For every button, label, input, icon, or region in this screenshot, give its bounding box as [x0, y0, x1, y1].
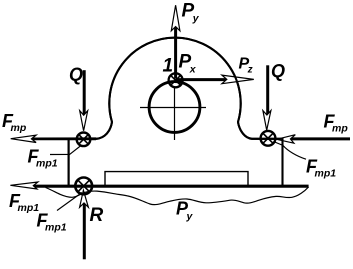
- force Q right shaft: [266, 65, 269, 115]
- workpiece outline re-stroke over arrowheads: [69, 38, 283, 186]
- base support line: [34, 185, 309, 188]
- svg-text:Fтр: Fтр: [324, 112, 349, 135]
- leader line to F_tr1 right label: [274, 142, 307, 160]
- svg-text:Fтр: Fтр: [2, 111, 27, 134]
- svg-text:Px: Px: [179, 52, 197, 76]
- svg-text:R: R: [90, 205, 104, 226]
- arrowhead R: [80, 190, 89, 207]
- arrowhead P_z: [222, 75, 254, 84]
- force P_y shaft: [174, 27, 177, 79]
- force F_tr right shaft: [291, 137, 350, 140]
- wire wavy ground break line: [46, 187, 309, 205]
- node 1 marker (force application point, into-page cross): [169, 73, 183, 87]
- svg-text:Q: Q: [271, 61, 285, 81]
- force P_z shaft: [176, 78, 228, 81]
- arrowhead Q left: [80, 111, 88, 131]
- node right flange clamp point: [261, 131, 276, 146]
- leader line to F_tr1 upper-left label: [50, 146, 81, 155]
- arrowhead F_tr right: [277, 135, 296, 144]
- svg-text:Fтр1: Fтр1: [37, 211, 67, 234]
- svg-text:1: 1: [163, 56, 174, 77]
- arrowhead Q right: [263, 111, 271, 131]
- svg-text:Q: Q: [69, 65, 83, 85]
- svg-text:Fтр1: Fтр1: [306, 157, 336, 180]
- svg-text:Py: Py: [176, 199, 194, 223]
- svg-text:Fтр1: Fтр1: [9, 191, 39, 214]
- node bottom support point: [75, 178, 92, 195]
- bore circle: [149, 82, 200, 133]
- workpiece outline (bearing cap): [69, 38, 283, 186]
- base slot rectangle: [105, 172, 248, 186]
- arrowhead P_y: [171, 5, 180, 31]
- reaction R shaft: [83, 204, 86, 260]
- bore centerline vertical: [174, 86, 176, 140]
- force Q left shaft: [83, 70, 86, 115]
- arrowhead F_tr1 bottom: [10, 182, 38, 189]
- svg-text:Pz: Pz: [239, 56, 253, 76]
- bore centerline horizontal: [140, 107, 206, 109]
- svg-text:Py: Py: [182, 1, 200, 25]
- node left flange clamp point: [77, 133, 91, 147]
- leader line to F_tr1 lower-left label: [57, 193, 82, 211]
- svg-text:Fтр1: Fтр1: [28, 147, 58, 170]
- left flange line / friction force shaft: [32, 137, 96, 140]
- arrowhead F_tr left: [11, 135, 36, 142]
